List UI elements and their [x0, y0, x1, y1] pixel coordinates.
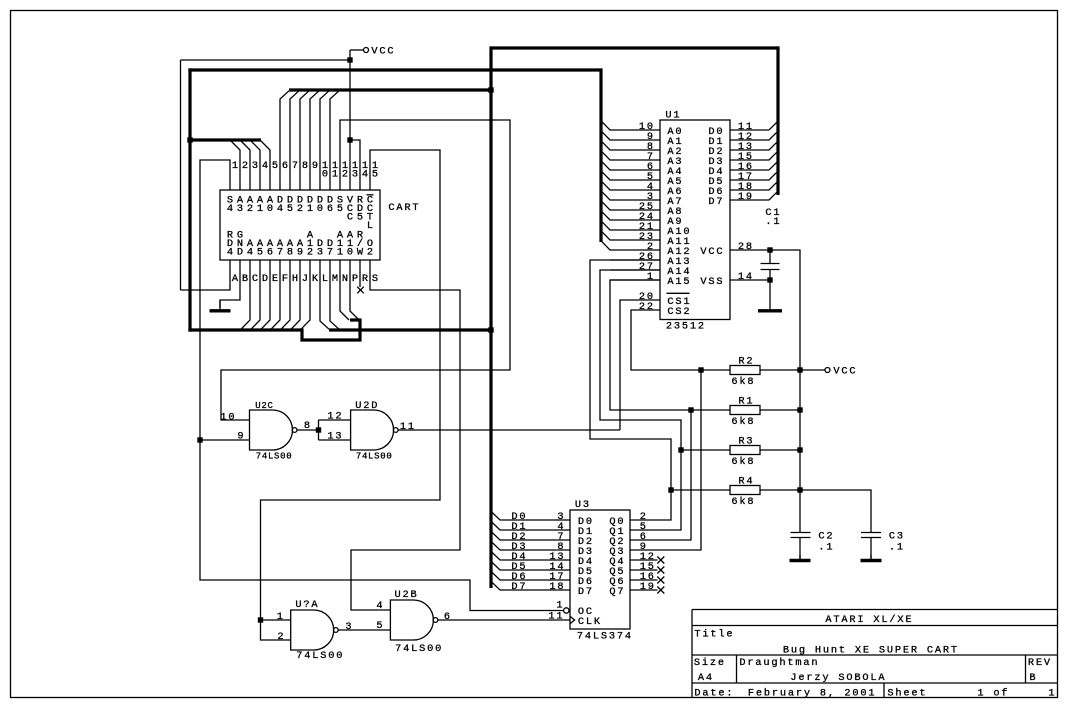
- svg-text:5: 5: [357, 212, 363, 224]
- svg-text:5: 5: [337, 203, 343, 215]
- IC U1 23512 body: [660, 110, 730, 333]
- svg-text:.1: .1: [818, 542, 832, 554]
- U3 pin 9 Q3: [609, 370, 701, 558]
- svg-text:H: H: [292, 273, 298, 285]
- bus: address stub y=140 for pins 2-5: [188, 138, 261, 141]
- svg-text:7: 7: [327, 247, 333, 259]
- bus: address bus bottom rail y=330: [188, 328, 302, 331]
- no-connect X on R/W: [357, 287, 364, 294]
- U1 pin 26 A13: [610, 251, 690, 268]
- svg-text:74LS00: 74LS00: [256, 452, 292, 462]
- svg-text:.1: .1: [889, 542, 903, 554]
- U1 pin 12 D1: [708, 131, 777, 148]
- svg-text:R: R: [362, 273, 368, 285]
- U1 pin 14 VSS: [700, 271, 772, 288]
- svg-text:R2: R2: [738, 356, 752, 368]
- svg-text:W: W: [357, 247, 364, 259]
- U3 pin 14 D5: [492, 561, 593, 578]
- wire U2B out to U3 CLK: [438, 619, 570, 621]
- wire CART pin8 to data bus: [300, 91, 309, 190]
- U1 pin 23 A11: [602, 231, 690, 248]
- svg-text:J: J: [302, 273, 308, 285]
- svg-text:8,: 8,: [820, 688, 834, 700]
- resistor R2 6k8: [698, 356, 802, 389]
- wire CS1 net from U2D out: [620, 300, 660, 430]
- svg-text:9: 9: [297, 247, 303, 259]
- U3 pin 2 Q0: [609, 490, 671, 528]
- bus: address bus left rail x=190: [188, 68, 191, 331]
- svg-text:D7: D7: [708, 196, 722, 208]
- U1 pin 28 VCC: [700, 241, 800, 370]
- junction on data bus (491,330): [488, 327, 493, 332]
- svg-text:CART: CART: [388, 202, 418, 214]
- CART bottom pin letters A-S: [232, 273, 378, 285]
- wire U2D output 11 to CS1: [398, 429, 620, 431]
- U1 pin 10 A0: [602, 121, 682, 138]
- bus: data bus top rail y=48: [491, 46, 778, 49]
- svg-text:3: 3: [352, 169, 358, 181]
- U3 pin 4 D1: [492, 521, 593, 538]
- svg-text:6: 6: [282, 160, 288, 172]
- svg-text:U2B: U2B: [395, 589, 417, 601]
- svg-text:1: 1: [257, 203, 263, 215]
- svg-text:CS2: CS2: [667, 306, 689, 318]
- U1 pin 20 CS1: [639, 291, 690, 308]
- svg-text:8: 8: [302, 160, 308, 172]
- IC U3 74LS374 body: [570, 499, 631, 643]
- svg-text:REV: REV: [1028, 657, 1051, 669]
- wire CART pin2 to address stub: [231, 141, 240, 190]
- svg-text:2001: 2001: [844, 688, 874, 700]
- wire U2C input 9: [200, 439, 250, 441]
- svg-text:4: 4: [227, 203, 233, 215]
- wire CART pin C to address bus: [241, 260, 250, 329]
- svg-text:U2D: U2D: [355, 400, 377, 412]
- svg-text:0: 0: [347, 247, 353, 259]
- ground at C3: [870, 555, 872, 561]
- svg-text:5: 5: [287, 203, 293, 215]
- U3 pin 17 D6: [492, 571, 593, 588]
- svg-text:3: 3: [317, 247, 323, 259]
- wire A13 net to R4: [590, 260, 671, 490]
- wire CART pin D to address bus: [251, 260, 260, 329]
- svg-text:2: 2: [342, 169, 348, 181]
- U1 pin 9 A1: [602, 131, 682, 148]
- svg-text:VSS: VSS: [700, 276, 722, 288]
- CART top pin numbers 1-15: [232, 160, 378, 181]
- U3 pin 6 Q2: [609, 410, 691, 548]
- wire CART pin P to address pocket: [350, 260, 359, 320]
- svg-text:Size: Size: [694, 657, 724, 669]
- U1 pin 1 A15: [610, 271, 690, 288]
- junction on data bus (491,90): [488, 87, 493, 92]
- svg-text:L: L: [322, 273, 328, 285]
- svg-text:10: 10: [220, 411, 234, 423]
- svg-text:VCC: VCC: [371, 46, 393, 58]
- U1 pin 18 D6: [708, 181, 777, 198]
- svg-text:R4: R4: [738, 476, 752, 488]
- wire S5 net: CART pin12 to U2C input 10: [221, 120, 510, 420]
- wire R4 row to C3: [800, 490, 871, 532]
- svg-text:U3: U3: [575, 499, 589, 511]
- U3 pin 19 Q7 no-connect: [609, 581, 664, 598]
- bus: address bus right rail x=601 to U1: [599, 68, 602, 242]
- U1 pin 25 A8: [602, 201, 682, 218]
- svg-text:28: 28: [738, 241, 752, 253]
- svg-text:2: 2: [297, 203, 303, 215]
- svg-text:9: 9: [312, 160, 318, 172]
- svg-text:1: 1: [1048, 688, 1054, 700]
- svg-text:D7: D7: [511, 581, 525, 593]
- svg-text:S: S: [372, 273, 378, 285]
- ground symbol at CART: [219, 300, 221, 311]
- svg-text:7: 7: [277, 247, 283, 259]
- wire CART pin J to address bus: [291, 260, 300, 329]
- svg-text:U2C: U2C: [255, 401, 273, 411]
- svg-text:5: 5: [376, 620, 382, 632]
- wire CS2 net to R2: [631, 310, 701, 370]
- svg-text:Draughtman: Draughtman: [739, 657, 817, 669]
- wire CCTL net: CART pin15 to U?A inputs: [258, 150, 440, 640]
- U1 pin 11 D0: [708, 121, 777, 138]
- svg-text:6k8: 6k8: [731, 496, 753, 508]
- U3 pin 5 Q1: [609, 450, 681, 538]
- svg-text:0: 0: [322, 169, 328, 181]
- wire CART pin R R/W stub: [359, 260, 361, 287]
- svg-text:19: 19: [738, 191, 752, 203]
- svg-text:A4: A4: [698, 672, 712, 684]
- svg-text:3: 3: [345, 621, 351, 633]
- svg-text:VCC: VCC: [833, 366, 855, 378]
- wire A14 net to R3: [600, 270, 681, 450]
- svg-text:19: 19: [640, 581, 654, 593]
- wire A15 net to R1: [610, 280, 691, 410]
- svg-text:D: D: [237, 247, 243, 259]
- svg-text:F: F: [282, 273, 288, 285]
- wire CART pin6 to data bus: [280, 91, 289, 190]
- U1 pin 22 CS2: [639, 301, 690, 318]
- power VCC symbol (right): [800, 366, 856, 378]
- U1 pin 8 A2: [602, 141, 682, 158]
- U1 pin 7 A3: [602, 151, 682, 168]
- svg-text:1: 1: [307, 203, 313, 215]
- svg-text:8: 8: [287, 247, 293, 259]
- power VCC symbol (top): [350, 46, 394, 58]
- svg-text:D: D: [262, 273, 268, 285]
- svg-text:6k8: 6k8: [731, 416, 753, 428]
- svg-text:4: 4: [277, 203, 283, 215]
- U3 pin 15 Q5 no-connect: [609, 561, 664, 578]
- svg-text:5: 5: [372, 169, 378, 181]
- wire CART pin1 S4 to U2C/OC: [197, 160, 563, 611]
- svg-text:C: C: [252, 273, 258, 285]
- U3 pin 3 D0: [492, 511, 593, 528]
- svg-text:U?A: U?A: [295, 599, 318, 611]
- svg-text:11: 11: [400, 421, 414, 433]
- gate U2C 74LS00: [220, 401, 310, 462]
- svg-text:Date:: Date:: [694, 688, 732, 700]
- bus: address bus pocket below data bus: [302, 320, 360, 340]
- svg-text:.1: .1: [765, 216, 779, 228]
- svg-text:Sheet: Sheet: [887, 688, 925, 700]
- svg-text:7: 7: [292, 160, 298, 172]
- bus: data bus right rail x=778 to U1: [776, 46, 779, 195]
- svg-text:C: C: [347, 212, 353, 224]
- svg-text:4: 4: [247, 247, 253, 259]
- U1 pin 19 D7: [708, 191, 777, 208]
- svg-text:9: 9: [237, 430, 243, 442]
- wire U?A out to U2B input 5: [338, 629, 390, 631]
- svg-text:13: 13: [327, 430, 341, 442]
- wire CART pin F to address bus: [271, 260, 280, 329]
- svg-text:6k8: 6k8: [731, 456, 753, 468]
- svg-text:M: M: [332, 273, 338, 285]
- svg-text:2: 2: [242, 160, 248, 172]
- svg-text:2: 2: [307, 247, 313, 259]
- capacitor C2: [791, 531, 833, 560]
- wire CART pin K to address bus: [301, 260, 310, 329]
- resistor R1 6k8: [688, 396, 802, 429]
- U1 pin 13 D2: [708, 141, 777, 158]
- wire VCC rail x=800 down to C2: [799, 370, 801, 532]
- wire VCC to RD4: horizontal y=60 and left drop: [181, 60, 351, 290]
- svg-text:6: 6: [327, 203, 333, 215]
- U3 pin 12 Q4 no-connect: [609, 551, 664, 568]
- wire CART pin H to address bus: [281, 260, 290, 329]
- svg-text:A: A: [232, 273, 239, 285]
- U1 pin 6 A4: [602, 161, 682, 178]
- gate U?A 74LS00: [277, 599, 352, 662]
- svg-text:1 of: 1 of: [977, 688, 1007, 700]
- U1 pin 2 A12: [602, 241, 690, 258]
- gate U2D 74LS00: [327, 400, 414, 462]
- wire CART pin N to address pocket: [340, 260, 349, 320]
- svg-text:4: 4: [262, 160, 268, 172]
- title block: [692, 610, 1058, 700]
- svg-text:6: 6: [444, 611, 450, 623]
- svg-text:A15: A15: [667, 276, 689, 288]
- bus: data bus bottom rail y=330: [329, 328, 491, 331]
- wire CART pin5 to address stub: [261, 141, 270, 190]
- svg-text:1: 1: [332, 169, 338, 181]
- wire O2 net: CART pin S to U2B input 4: [351, 260, 460, 610]
- svg-text:Title: Title: [694, 629, 732, 641]
- CART top pin name labels: [227, 195, 374, 233]
- svg-text:K: K: [312, 273, 319, 285]
- svg-text:4: 4: [362, 169, 368, 181]
- resistor R4 6k8: [668, 476, 802, 509]
- svg-text:1: 1: [277, 611, 283, 623]
- svg-text:1: 1: [232, 160, 238, 172]
- svg-text:CLK: CLK: [578, 616, 601, 628]
- ground at C1: [769, 280, 771, 311]
- svg-text:R3: R3: [738, 436, 752, 448]
- connector CART body: [220, 190, 419, 260]
- svg-text:P: P: [352, 273, 358, 285]
- svg-text:1: 1: [337, 247, 343, 259]
- svg-text:Bug Hunt XE SUPER CART: Bug Hunt XE SUPER CART: [783, 645, 957, 657]
- U1 pin 17 D5: [708, 171, 777, 188]
- svg-text:0: 0: [317, 203, 323, 215]
- wire CART pin11 to data bus: [330, 91, 339, 190]
- wire CART pin3 to address stub: [241, 141, 250, 190]
- resistor R3 6k8: [678, 436, 802, 469]
- U1 pin 24 A9: [602, 211, 682, 228]
- U3 pin 13 D4: [492, 551, 593, 568]
- svg-text:11: 11: [548, 610, 562, 622]
- svg-text:4: 4: [376, 600, 382, 612]
- wire CART pin L to data bus: [320, 260, 329, 329]
- wire CART pin M to data bus: [330, 260, 339, 329]
- wire CART pin A RD4 to VCC: [181, 260, 231, 290]
- svg-text:B: B: [1029, 672, 1035, 684]
- wire CART pin B GND: [220, 260, 240, 308]
- wire CART pin7 to data bus: [290, 91, 299, 190]
- svg-text:B: B: [242, 273, 248, 285]
- U1 pin 21 A10: [602, 221, 690, 238]
- svg-text:N: N: [342, 273, 348, 285]
- CART bottom pin name labels: [227, 230, 373, 259]
- wire CART pin E to address bus: [261, 260, 270, 329]
- svg-text:3: 3: [252, 160, 258, 172]
- svg-text:February: February: [748, 688, 810, 700]
- svg-text:22: 22: [639, 301, 653, 313]
- wire U2C out to U2D inputs: [297, 420, 350, 440]
- svg-text:23512: 23512: [666, 321, 704, 333]
- svg-text:Q7: Q7: [609, 586, 623, 598]
- U3 pin 7 D2: [492, 531, 593, 548]
- svg-text:2: 2: [277, 631, 283, 643]
- svg-text:74LS374: 74LS374: [577, 631, 631, 643]
- svg-text:VCC: VCC: [700, 246, 722, 258]
- wire RD5 branch to CART pin 14: [350, 140, 360, 190]
- gate U2B 74LS00: [376, 589, 450, 655]
- bus: address bus top rail y=70: [188, 68, 601, 71]
- bus: data bus vertical rail x=491: [489, 46, 492, 588]
- junction on bus at (190,140): [187, 137, 192, 142]
- svg-text:0: 0: [267, 203, 273, 215]
- svg-text:14: 14: [738, 271, 752, 283]
- svg-text:18: 18: [549, 581, 563, 593]
- wire CART pin10 to data bus: [320, 91, 329, 190]
- U3 pin 16 Q6 no-connect: [609, 571, 664, 588]
- svg-text:D7: D7: [578, 586, 592, 598]
- svg-text:4: 4: [227, 247, 233, 259]
- svg-text:2: 2: [367, 247, 373, 259]
- svg-text:5: 5: [257, 247, 263, 259]
- svg-text:R1: R1: [738, 396, 752, 408]
- svg-text:12: 12: [327, 410, 341, 422]
- U3 pin 8 D3: [492, 541, 593, 558]
- svg-text:6: 6: [267, 247, 273, 259]
- svg-text:2: 2: [247, 203, 253, 215]
- svg-text:E: E: [272, 273, 278, 285]
- wire CART pin9 to data bus: [310, 91, 319, 190]
- U1 pin 4 A6: [602, 181, 682, 198]
- U3 pin 18 D7: [492, 581, 593, 598]
- U1 pin 16 D4: [708, 161, 777, 178]
- wire CART pin4 to address stub: [251, 141, 260, 190]
- svg-text:3: 3: [237, 203, 243, 215]
- svg-text:5: 5: [272, 160, 278, 172]
- U1 pin 3 A7: [602, 191, 682, 208]
- U3 pin 11 CLK: [548, 610, 601, 628]
- svg-text:1: 1: [647, 271, 653, 283]
- bus: data bus rail y=90: [289, 88, 491, 91]
- U3 pin 1 OC: [556, 599, 592, 618]
- capacitor C3: [861, 531, 903, 560]
- svg-text:L: L: [367, 220, 373, 232]
- svg-text:6k8: 6k8: [731, 376, 753, 388]
- svg-text:U1: U1: [665, 110, 679, 122]
- U1 pin 15 D3: [708, 151, 777, 168]
- wire VCC net: down to CART pin 13: [347, 50, 352, 190]
- svg-text:74LS00: 74LS00: [356, 452, 392, 462]
- capacitor C1: [761, 207, 780, 280]
- svg-text:ATARI XL/XE: ATARI XL/XE: [825, 614, 911, 626]
- ground at C2: [799, 555, 801, 561]
- U1 pin 5 A5: [602, 171, 682, 188]
- U1 pin 27 A14: [610, 261, 690, 278]
